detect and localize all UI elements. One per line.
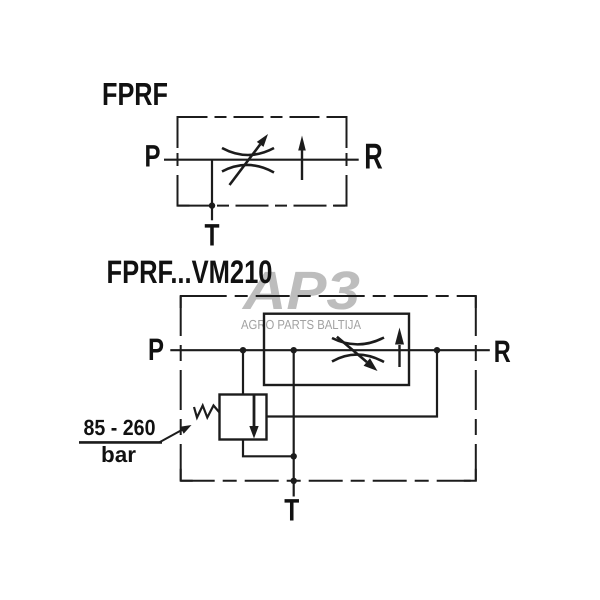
junction dot main/relief right port (434, 347, 440, 353)
free-flow check arrow (bottom, up) (395, 328, 404, 368)
relief valve spring (194, 406, 220, 418)
adjustable throttle arrow (bottom, pointing down-right) (337, 337, 378, 371)
enclosure box (dash-dot) bottom diagram (181, 296, 476, 481)
wire relief valve bottom to T line (243, 440, 294, 457)
regulator body inner rectangle (264, 314, 409, 385)
svg-text:AGRO PARTS BALTIJA: AGRO PARTS BALTIJA (241, 317, 361, 332)
junction dot T line at bottom border (291, 478, 297, 484)
leader line with arrow to spring (160, 425, 192, 442)
junction dot main/T branch (291, 347, 297, 353)
svg-text:T: T (284, 493, 299, 528)
adjustable throttle arrow (top, pointing up-right) (230, 134, 269, 185)
junction dot relief-bottom/T line (291, 453, 297, 459)
pressure range label 85 - 260 bar (79, 415, 162, 467)
svg-text:FPRF...VM210: FPRF...VM210 (107, 254, 273, 290)
svg-text:P: P (148, 332, 164, 367)
wire T branch (top) (211, 160, 213, 221)
watermark text AGRO PARTS BALTIJA (241, 317, 361, 332)
junction dot on bottom border (top) (209, 202, 215, 208)
enclosure box (dash-dot) top diagram (178, 117, 347, 206)
watermark logo AP3 (241, 261, 360, 321)
svg-text:FPRF: FPRF (102, 76, 168, 112)
title FPRF (102, 76, 168, 112)
wire relief valve right port to main line (267, 350, 438, 416)
junction dot main/relief branch (240, 347, 246, 353)
svg-text:R: R (364, 136, 383, 177)
svg-text:R: R (494, 334, 511, 369)
svg-text:P: P (145, 139, 161, 174)
wire branch to relief valve (242, 350, 244, 394)
adjustable throttle (bottom): venturi arcs (332, 338, 384, 363)
svg-text:T: T (205, 218, 220, 253)
wire P-R main line (bottom) (170, 349, 490, 351)
svg-text:85 - 260: 85 - 260 (84, 415, 156, 440)
wire T branch (bottom) (293, 350, 295, 496)
free-flow check arrow (top, up) (298, 136, 306, 181)
adjustable throttle (top): venturi arcs (222, 148, 274, 173)
wire P-R main line (top) (164, 159, 359, 161)
relief valve V1 body (220, 395, 267, 440)
svg-text:bar: bar (101, 442, 136, 467)
relief valve internal arrow (down) (249, 396, 258, 439)
